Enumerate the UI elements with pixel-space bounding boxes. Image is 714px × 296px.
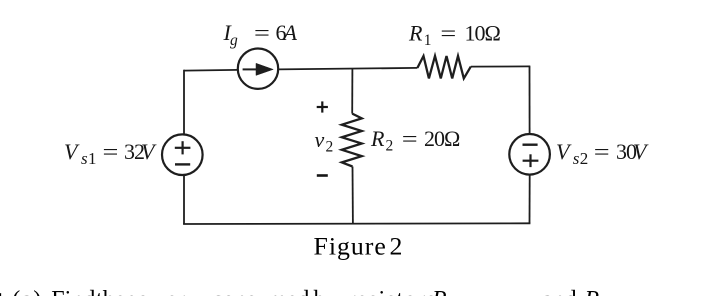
svg-text:20Ω: 20Ω <box>424 126 460 151</box>
wire right vertical upper <box>529 66 531 134</box>
wire bottom rail <box>183 222 530 225</box>
svg-text:V: V <box>64 139 80 164</box>
svg-text:g: g <box>230 32 238 49</box>
voltage source Vs1 circle <box>162 134 203 175</box>
svg-text:1: 1 <box>424 32 432 49</box>
svg-text:R2: R2 <box>584 287 608 296</box>
svg-text:and: and <box>542 287 577 296</box>
wire top-left segment <box>184 69 238 72</box>
Vs2 plus sign <box>523 154 539 167</box>
Vs1 minus sign <box>175 163 190 165</box>
svg-text:Part: Part <box>0 287 4 296</box>
svg-text:v: v <box>315 127 325 152</box>
svg-text:power: power <box>125 287 185 296</box>
svg-text:Figure: Figure <box>314 231 387 260</box>
svg-text:s: s <box>81 149 88 168</box>
svg-text:(a): (a) <box>12 287 42 296</box>
v2 polarity minus sign <box>317 174 328 177</box>
wire middle vertical lower <box>352 167 354 224</box>
wire left vertical upper <box>183 70 185 135</box>
label R2 = 20ohm <box>370 126 460 155</box>
Vs2 minus sign <box>523 143 538 145</box>
svg-text:=: = <box>103 140 119 164</box>
svg-text:=: = <box>402 127 418 151</box>
label Ig = 6A <box>223 20 298 49</box>
svg-text:R: R <box>370 126 385 151</box>
bottom cut-off text: Part (a) Find the power consumed by resistors R1 and R2 <box>0 287 608 296</box>
svg-text:2: 2 <box>390 231 403 260</box>
v2 polarity plus sign <box>317 101 328 112</box>
svg-text:=: = <box>254 21 270 45</box>
label R1 = 10ohm <box>408 21 501 50</box>
wire top middle segment <box>278 68 417 70</box>
wire top right segment <box>471 65 531 67</box>
svg-text:V: V <box>141 139 157 164</box>
current source arrow <box>243 63 274 75</box>
svg-text:=: = <box>440 21 456 45</box>
svg-text:=: = <box>594 140 610 164</box>
wire middle vertical upper <box>351 69 353 114</box>
svg-text:s: s <box>573 149 580 168</box>
label Vs2 = 30V <box>556 139 649 168</box>
resistor R1 <box>417 56 470 78</box>
current source Ig circle <box>238 48 278 88</box>
voltage source Vs2 circle <box>509 134 550 175</box>
svg-text:the: the <box>96 287 125 296</box>
resistor R2 <box>342 114 362 167</box>
svg-text:2: 2 <box>326 139 334 156</box>
svg-text:consumed: consumed <box>212 287 309 296</box>
svg-text:resistors: resistors <box>348 287 437 296</box>
svg-text:10Ω: 10Ω <box>465 21 501 46</box>
svg-text:A: A <box>282 20 298 45</box>
label Vs1 = 32V <box>64 139 157 168</box>
svg-text:V: V <box>633 139 649 164</box>
svg-text:1: 1 <box>88 149 97 168</box>
svg-text:by: by <box>314 287 338 296</box>
svg-text:R: R <box>408 21 423 46</box>
svg-text:V: V <box>556 139 572 164</box>
label v2 <box>315 127 334 156</box>
Vs1 plus sign <box>175 141 191 154</box>
svg-text:2: 2 <box>386 138 394 155</box>
svg-text:Find: Find <box>51 287 95 296</box>
svg-text:R1: R1 <box>431 287 455 296</box>
svg-text:2: 2 <box>580 149 589 168</box>
wire right vertical lower <box>529 175 531 224</box>
wire left vertical lower <box>183 175 185 224</box>
